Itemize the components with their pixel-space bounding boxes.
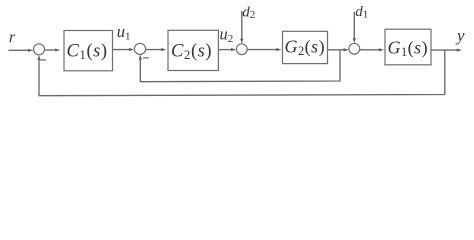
svg-text:u2: u2 <box>220 25 234 46</box>
wire inner feedback <box>140 50 340 82</box>
arrowhead into G1 <box>379 48 384 51</box>
arrowhead into C2 <box>161 48 166 51</box>
arrowhead feedback up into sum2 <box>139 54 142 59</box>
svg-text:C2(s): C2(s) <box>171 41 212 62</box>
arrowhead into sum1 <box>28 49 33 52</box>
wire d1 drop <box>353 12 355 41</box>
arrowhead output y <box>457 49 462 52</box>
arrowhead into sum d1 <box>344 48 349 51</box>
block G1 <box>385 29 431 65</box>
block C2 <box>168 30 218 70</box>
block G2 <box>283 31 328 63</box>
svg-text:u1: u1 <box>117 22 131 43</box>
wire G1 to output y <box>431 49 459 51</box>
svg-text:r: r <box>9 29 16 46</box>
wire G2 to sum d1 <box>328 49 347 51</box>
svg-text:G2(s): G2(s) <box>285 36 326 58</box>
summing junction d1 <box>349 43 360 54</box>
svg-text:y: y <box>455 26 465 45</box>
wire r input <box>8 49 31 51</box>
arrowhead into C1 <box>55 48 60 51</box>
arrowhead into G2 <box>276 48 281 51</box>
wire sum1 to C1 <box>45 49 58 51</box>
summing junction 1 <box>34 44 45 55</box>
svg-text:G1(s): G1(s) <box>388 37 429 59</box>
wire outer feedback <box>39 50 445 96</box>
arrowhead feedback up into sum1 <box>37 55 40 60</box>
svg-text:d1: d1 <box>355 4 368 21</box>
wire sum d1 to G1 <box>360 49 382 51</box>
wire C1 to sum2 <box>113 49 132 51</box>
svg-text:C1(s): C1(s) <box>67 41 108 62</box>
minus sign at sum1 <box>41 59 47 61</box>
arrowhead into sum d2 <box>231 48 236 51</box>
arrowhead d2 down <box>240 39 243 44</box>
wire sum d2 to G2 <box>247 49 279 51</box>
wire C2 to sum d2 <box>218 49 233 51</box>
wire d2 drop <box>241 11 243 41</box>
summing junction d2 <box>236 44 247 55</box>
arrowhead into sum2 <box>129 48 134 51</box>
minus sign at sum2 <box>143 57 149 59</box>
svg-text:d2: d2 <box>242 5 255 22</box>
summing junction 2 <box>134 43 145 54</box>
wire sum2 to C2 <box>146 49 163 51</box>
arrowhead d1 down <box>353 38 356 43</box>
block C1 <box>64 31 113 71</box>
